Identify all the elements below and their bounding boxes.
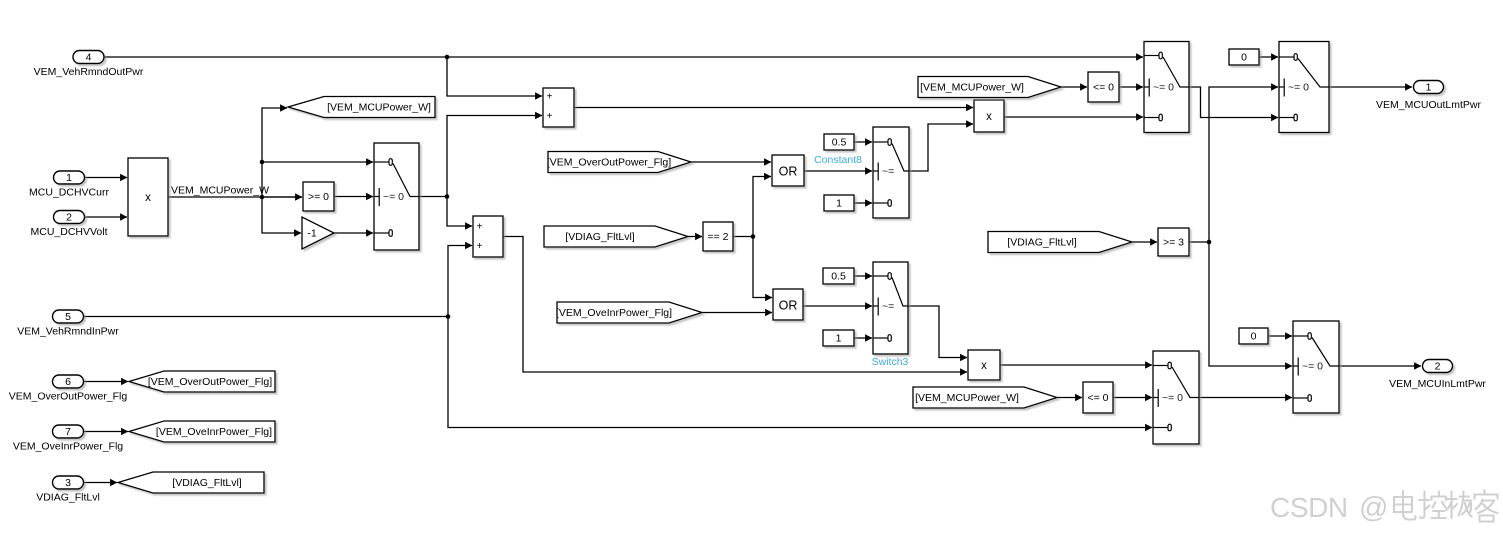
svg-text:0.5: 0.5 — [832, 137, 847, 149]
svg-text:[VEM_OverOutPower_Flg]: [VEM_OverOutPower_Flg] — [547, 157, 671, 169]
svg-text:VEM_OverOutPower_Flg: VEM_OverOutPower_Flg — [9, 391, 128, 403]
svg-text:[VEM_MCUPower_W]: [VEM_MCUPower_W] — [915, 392, 1019, 404]
svg-text:Switch3: Switch3 — [872, 356, 909, 368]
svg-text:x: x — [986, 111, 992, 123]
svg-text:[VEM_MCUPower_W]: [VEM_MCUPower_W] — [920, 82, 1024, 94]
svg-text:Constant8: Constant8 — [814, 154, 862, 166]
svg-text:3: 3 — [65, 477, 71, 489]
svg-text:0: 0 — [1241, 52, 1247, 64]
svg-text:1: 1 — [66, 172, 72, 184]
svg-text:0.5: 0.5 — [831, 271, 846, 283]
svg-text:0: 0 — [1251, 331, 1257, 343]
svg-text:-1: -1 — [307, 228, 316, 240]
svg-text:4: 4 — [86, 52, 92, 64]
svg-text:VEM_VehRmndInPwr: VEM_VehRmndInPwr — [17, 326, 119, 338]
svg-text:+: + — [477, 221, 483, 232]
svg-text:[VEM_OveInrPower_Flg]: [VEM_OveInrPower_Flg] — [556, 307, 672, 319]
svg-text:+: + — [547, 91, 553, 102]
svg-text:<= 0: <= 0 — [1093, 82, 1114, 94]
svg-text:x: x — [981, 360, 987, 372]
svg-text:~= 0: ~= 0 — [1162, 392, 1183, 404]
svg-text:~= 0: ~= 0 — [383, 191, 404, 203]
svg-text:CSDN: CSDN — [1270, 492, 1348, 523]
svg-text:~= 0: ~= 0 — [1302, 361, 1323, 373]
svg-text:[VDIAG_FltLvl]: [VDIAG_FltLvl] — [172, 477, 242, 489]
svg-text:VEM_VehRmndOutPwr: VEM_VehRmndOutPwr — [34, 66, 144, 78]
svg-text:VEM_MCUPower_W: VEM_MCUPower_W — [171, 185, 269, 197]
svg-text:== 2: == 2 — [707, 231, 728, 243]
svg-text:VEM_MCUOutLmtPwr: VEM_MCUOutLmtPwr — [1376, 99, 1482, 111]
svg-text:6: 6 — [65, 376, 71, 388]
svg-text:x: x — [145, 192, 151, 204]
svg-text:VDIAG_FltLvl: VDIAG_FltLvl — [36, 492, 100, 504]
svg-text:OR: OR — [779, 299, 798, 313]
svg-text:>= 0: >= 0 — [308, 191, 329, 203]
svg-text:MCU_DCHVCurr: MCU_DCHVCurr — [29, 187, 109, 199]
svg-text:1: 1 — [836, 333, 842, 345]
svg-text:>= 3: >= 3 — [1163, 237, 1184, 249]
svg-text:~=: ~= — [882, 166, 894, 178]
svg-text:[VEM_MCUPower_W]: [VEM_MCUPower_W] — [327, 102, 431, 114]
svg-text:VEM_OveInrPower_Flg: VEM_OveInrPower_Flg — [13, 441, 123, 453]
svg-text:~= 0: ~= 0 — [1153, 82, 1174, 94]
svg-text:+: + — [477, 241, 483, 252]
svg-text:@: @ — [1359, 492, 1388, 524]
svg-text:7: 7 — [65, 426, 71, 438]
svg-text:2: 2 — [1435, 361, 1441, 373]
svg-text:[VEM_OveInrPower_Flg]: [VEM_OveInrPower_Flg] — [156, 426, 272, 438]
svg-text:~= 0: ~= 0 — [1288, 82, 1309, 94]
svg-text:2: 2 — [66, 212, 72, 224]
svg-text:~=: ~= — [882, 301, 894, 313]
svg-text:MCU_DCHVVolt: MCU_DCHVVolt — [30, 226, 107, 238]
svg-text:[VDIAG_FltLvl]: [VDIAG_FltLvl] — [565, 231, 635, 243]
svg-text:VEM_MCUInLmtPwr: VEM_MCUInLmtPwr — [1389, 378, 1486, 390]
svg-text:5: 5 — [65, 311, 71, 323]
svg-text:[VEM_OverOutPower_Flg]: [VEM_OverOutPower_Flg] — [148, 376, 272, 388]
svg-text:+: + — [547, 111, 553, 122]
svg-text:OR: OR — [779, 165, 798, 179]
svg-text:[VDIAG_FltLvl]: [VDIAG_FltLvl] — [1007, 237, 1077, 249]
svg-text:1: 1 — [1426, 82, 1432, 94]
svg-text:<= 0: <= 0 — [1087, 392, 1108, 404]
svg-text:1: 1 — [836, 198, 842, 210]
